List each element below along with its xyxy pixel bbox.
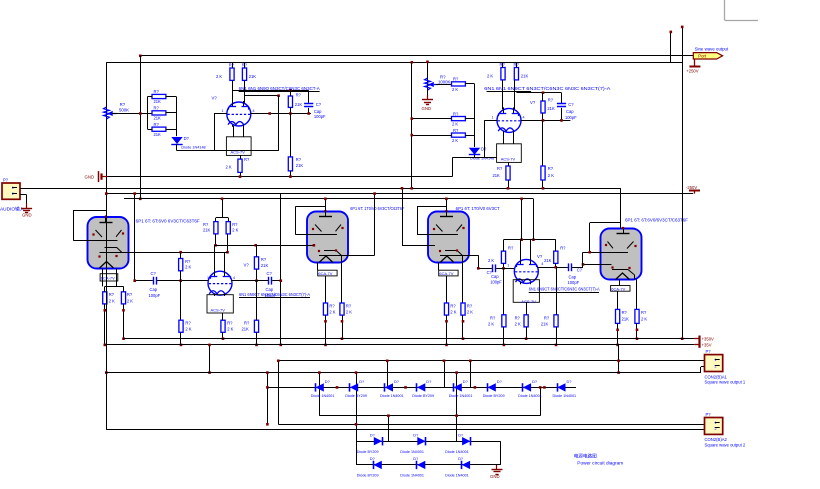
- svg-text:2 K: 2 K: [515, 321, 521, 326]
- wire L2 input drop: [134, 194, 136, 281]
- wire wiper right: [436, 84, 452, 86]
- ground GND bottom: [490, 465, 503, 479]
- wire cath res top: [240, 155, 242, 159]
- triode V? input-R: [497, 107, 521, 133]
- svg-text:R?: R?: [109, 292, 115, 297]
- wire pin1 drop: [214, 114, 216, 151]
- junction: [341, 337, 344, 340]
- resistor R? 2K R2 plate a: [488, 246, 514, 264]
- wire rplate top R: [516, 62, 518, 67]
- wire R2 e top: [526, 302, 528, 315]
- svg-text:CON2(B)A1: CON2(B)A1: [705, 374, 728, 379]
- svg-text:21K: 21K: [622, 316, 630, 321]
- svg-text:V?: V?: [530, 100, 536, 105]
- wire L2 d bottom: [180, 332, 182, 345]
- junction: [208, 344, 211, 347]
- wire T4 bracket left: [589, 223, 591, 252]
- junction: [255, 344, 258, 347]
- label annotation L2: [239, 292, 310, 297]
- diode D? row1-4: [412, 379, 434, 398]
- junction: [555, 344, 558, 347]
- resistor R? 2K T4b: [635, 309, 648, 323]
- svg-text:R?: R?: [296, 92, 302, 97]
- junction: [289, 175, 292, 178]
- svg-text:R?: R?: [154, 89, 160, 94]
- wire loop right down: [308, 90, 310, 103]
- wire plate res top R: [244, 62, 246, 68]
- diode D? 1N4148: [171, 136, 205, 150]
- wire T4b bottom: [636, 323, 638, 338]
- svg-text:Sine wave output: Sine wave output: [695, 46, 729, 51]
- svg-text:Diode 1N4001: Diode 1N4001: [380, 394, 404, 398]
- wire rrow3 right lead: [465, 135, 474, 137]
- label V? R2: [537, 254, 543, 259]
- pin box ACS-7V L2: [207, 295, 233, 314]
- resistor R? 21K fb-R: [541, 97, 555, 113]
- wire T2 out up: [374, 194, 376, 256]
- wire T2a bottom: [325, 315, 327, 345]
- wire L2 pin1: [157, 280, 209, 282]
- svg-text:2 K: 2 K: [127, 298, 133, 303]
- wire T2 out: [348, 255, 375, 257]
- wire T3 lead b: [462, 255, 464, 303]
- label R?: [440, 75, 446, 80]
- svg-text:D?: D?: [481, 147, 487, 152]
- wire mid bus 415: [319, 415, 540, 417]
- wire R2 top line: [504, 239, 556, 241]
- wire R2 plate b top: [555, 240, 557, 251]
- svg-text:D?: D?: [184, 136, 190, 141]
- wire rows tie right: [500, 441, 502, 465]
- wire T3a bottom: [446, 315, 448, 345]
- wire v456 drop: [456, 373, 458, 442]
- diode D? row1-5: [449, 379, 473, 398]
- svg-text:R?: R?: [244, 321, 250, 326]
- wire loop top: [232, 90, 309, 92]
- resistor R? 21K rplate R: [514, 62, 529, 80]
- svg-text:D?: D?: [359, 379, 365, 384]
- wire T4 cathode a: [612, 269, 628, 271]
- svg-text:CON2(B)A2: CON2(B)A2: [705, 437, 728, 442]
- svg-text:6CA-7V: 6CA-7V: [611, 286, 625, 291]
- pin box 6CA-7V T4: [611, 286, 630, 292]
- svg-text:+35V: +35V: [702, 342, 712, 347]
- junction: [179, 279, 182, 282]
- wire L2 e bottom: [222, 332, 224, 338]
- svg-text:2 K: 2 K: [452, 122, 458, 127]
- svg-text:21K: 21K: [521, 73, 529, 78]
- svg-text:C?: C?: [577, 268, 583, 273]
- wire stub right top: [670, 32, 672, 62]
- svg-text:100pF: 100pF: [568, 280, 580, 285]
- junction: [542, 91, 545, 94]
- label V?: [530, 100, 536, 105]
- wire T1b bottom: [123, 304, 125, 339]
- label 500K: [119, 108, 129, 113]
- svg-text:2 K: 2 K: [467, 310, 473, 315]
- wire connector pin2: [20, 194, 27, 196]
- wire rrows right tie: [474, 84, 476, 147]
- svg-text:Cap: Cap: [150, 287, 158, 292]
- wire underline L2: [239, 297, 310, 299]
- junction: [582, 263, 585, 266]
- svg-text:D?: D?: [325, 379, 331, 384]
- pin tip: [636, 329, 639, 332]
- junction: [401, 187, 404, 190]
- junction: [280, 344, 283, 347]
- wire rdiode to box: [452, 157, 496, 159]
- resistor R? 21K R2 plate b: [544, 246, 566, 264]
- svg-text:6N1 6N9CT 6N3CT/C6N3C 6N3CT(7): 6N1 6N9CT 6N3CT/C6N3C 6N3CT(7)-A: [529, 287, 600, 292]
- junction: [589, 251, 592, 254]
- svg-text:6N1 6N9CT 6N3CT/C6N3C 6N3CT(7): 6N1 6N9CT 6N3CT/C6N3C 6N3CT(7)-A: [239, 292, 310, 297]
- wire right tall vertical: [682, 27, 684, 339]
- junction: [280, 279, 283, 282]
- ground GND bus A: [85, 171, 108, 182]
- resistor R? 2K rrow1: [452, 77, 466, 92]
- svg-text:21K: 21K: [296, 163, 304, 168]
- svg-text:D?: D?: [458, 432, 464, 437]
- svg-text:R?: R?: [450, 303, 456, 308]
- pin box ACS-7V R2: [513, 280, 539, 305]
- wire L2 pin4: [232, 280, 269, 282]
- junction: [254, 244, 257, 247]
- svg-text:21K: 21K: [249, 74, 257, 79]
- wire underline R2: [529, 292, 599, 294]
- junction: [542, 187, 545, 190]
- wire T3 lead a: [438, 263, 440, 271]
- wire T4a bottom: [617, 323, 619, 345]
- wire T3 bracket left: [417, 206, 419, 234]
- svg-text:D?: D?: [370, 432, 376, 437]
- junction: [616, 344, 619, 347]
- wire row2 right lead: [166, 112, 176, 114]
- junction: [681, 337, 684, 340]
- wire L2 lead a: [214, 294, 216, 296]
- resistor R? 2K T1a: [103, 292, 115, 304]
- wire vertical feed left: [140, 56, 142, 199]
- svg-text:ACS-7V: ACS-7V: [231, 149, 246, 154]
- resistor R? 2K lower-R: [541, 166, 554, 180]
- resistor R? 2K L2 d: [179, 320, 192, 332]
- junction: [411, 117, 414, 120]
- resistor R? 2K R2 d: [488, 315, 506, 327]
- wire chain row1: [267, 387, 576, 389]
- wire right pot column: [427, 62, 429, 95]
- junction: [617, 360, 620, 363]
- svg-text:1: 1: [715, 358, 717, 362]
- junction: [226, 251, 229, 254]
- svg-text:R?: R?: [120, 102, 126, 107]
- svg-text:Diode BY209: Diode BY209: [412, 394, 434, 398]
- wire wiper left: [112, 113, 152, 115]
- junction: [560, 119, 563, 122]
- wire T3 riser: [446, 199, 448, 212]
- wire T4a to diode bus: [618, 345, 620, 373]
- junction: [336, 386, 339, 389]
- svg-text:Diode BY209: Diode BY209: [345, 394, 367, 398]
- wire T3b bottom: [462, 315, 464, 339]
- svg-text:R?: R?: [227, 321, 233, 326]
- wire out1 line: [278, 360, 704, 362]
- wire v319: [319, 373, 321, 416]
- svg-text:21K: 21K: [154, 99, 162, 104]
- svg-text:R?: R?: [490, 316, 496, 321]
- svg-text:GND: GND: [85, 175, 95, 180]
- no-connect: [670, 31, 673, 34]
- label pin4 L2: [233, 276, 235, 280]
- svg-text:500K: 500K: [119, 108, 129, 113]
- junction: [313, 244, 316, 247]
- wire v356: [356, 373, 358, 465]
- wire box1 pin2 jog v: [700, 367, 702, 373]
- ground GND right pot: [422, 95, 434, 111]
- wire T1 grid entry: [73, 240, 88, 242]
- triode V? R2: [514, 258, 538, 284]
- svg-text:R?: R?: [229, 62, 235, 67]
- junction: [411, 134, 414, 137]
- wire L2 f bottom: [256, 332, 258, 345]
- pin tip: [104, 309, 107, 312]
- junction: [543, 386, 546, 389]
- svg-text:V?: V?: [212, 96, 218, 101]
- resistor R? 21K L2 c: [254, 257, 268, 269]
- svg-text:V?: V?: [537, 254, 543, 259]
- wire L2 fb bottom: [180, 271, 182, 320]
- svg-text:-250V: -250V: [686, 185, 697, 190]
- svg-text:R?: R?: [203, 222, 209, 227]
- label sine wave output: [695, 46, 729, 51]
- svg-text:2: 2: [715, 427, 717, 431]
- label annotation T2: [350, 206, 404, 211]
- diode D? row1-7: [518, 379, 542, 398]
- junction: [404, 386, 407, 389]
- svg-text:1: 1: [715, 421, 717, 425]
- label pin1 L2: [207, 276, 209, 280]
- wire out1 drop: [278, 361, 280, 425]
- wire R2 pin4 b: [572, 267, 583, 269]
- label audio input: [0, 206, 25, 213]
- junction: [268, 112, 271, 115]
- wire r508 bottom: [508, 180, 510, 188]
- resistor R? 2K L2 e: [221, 320, 234, 332]
- svg-text:R?: R?: [346, 303, 352, 308]
- pin tip: [445, 320, 448, 323]
- svg-text:R?: R?: [154, 106, 160, 111]
- wire T3 grid entry: [417, 234, 428, 236]
- svg-text:2 K: 2 K: [452, 87, 458, 92]
- svg-text:4: 4: [253, 109, 255, 113]
- svg-text:Cap: Cap: [569, 275, 577, 280]
- wire T3 out: [469, 255, 478, 257]
- svg-text:电源电路图: 电源电路图: [574, 453, 597, 460]
- resistor R? 2K T3b: [461, 303, 473, 315]
- junction: [455, 414, 458, 417]
- wire top bus 2: [106, 62, 682, 64]
- capacitor C? 100pF R2-in: [487, 264, 503, 284]
- capacitor C? 100pF R2-out: [568, 263, 583, 285]
- svg-text:21K: 21K: [154, 132, 162, 137]
- label pin4 r: [523, 115, 525, 119]
- label annotation input-R: [484, 86, 610, 91]
- label pin4 R2: [541, 262, 543, 266]
- pin box 6CA-7V T3: [439, 270, 458, 276]
- diode D? row2-3: [445, 432, 470, 454]
- wire row3 right lead: [166, 129, 176, 131]
- junction: [525, 337, 528, 340]
- svg-text:GND: GND: [422, 106, 432, 111]
- wire L2 mid line: [216, 245, 314, 247]
- sheet border corner: [725, 0, 759, 21]
- svg-text:R?: R?: [185, 259, 191, 264]
- svg-text:1: 1: [12, 186, 14, 190]
- wire T1a top: [104, 286, 106, 291]
- potentiometer R? 500K: [104, 107, 117, 119]
- wire T1 lead b: [116, 269, 118, 287]
- wire T2 grid entry: [296, 234, 308, 236]
- svg-text:21K: 21K: [541, 321, 549, 326]
- resistor R? 2K rplate L: [487, 62, 505, 80]
- label annotation T4: [625, 218, 689, 223]
- wire T4 bracket top: [590, 222, 621, 224]
- resistor R? 21K lower-mid-R: [493, 166, 511, 180]
- svg-text:Diode 1N4001: Diode 1N4001: [311, 394, 335, 398]
- wire T2 riser: [325, 199, 327, 212]
- wire v388 drop: [388, 416, 390, 442]
- resistor R? 2K L2 fb: [179, 259, 192, 271]
- wire left pot column: [106, 62, 108, 223]
- svg-text:R?: R?: [548, 97, 554, 102]
- pentode V? T3: [428, 210, 470, 263]
- triode V? L2: [208, 270, 232, 296]
- pin tip: [462, 320, 465, 323]
- wire L2 plate b jog: [225, 252, 228, 254]
- svg-text:1: 1: [507, 264, 509, 268]
- svg-text:D?: D?: [370, 456, 376, 461]
- svg-text:1: 1: [222, 109, 224, 113]
- wire R2 out up: [582, 252, 584, 267]
- junction: [208, 371, 211, 374]
- wire L2 f top: [256, 281, 258, 321]
- junction: [503, 344, 506, 347]
- wire pin4 net down: [290, 114, 292, 157]
- svg-text:6CA-7V: 6CA-7V: [318, 271, 332, 276]
- svg-text:2: 2: [12, 192, 14, 196]
- wire L2 plate a jog: [214, 245, 215, 247]
- svg-text:6CA-7V: 6CA-7V: [101, 276, 115, 281]
- wire T1 bracket top: [73, 210, 106, 212]
- label annotation R2: [529, 287, 600, 292]
- junction: [387, 414, 390, 417]
- svg-text:100pF: 100pF: [565, 115, 577, 120]
- svg-text:21K: 21K: [242, 326, 250, 331]
- wire R2 f bottom: [556, 327, 558, 345]
- wire box2 pin1 line: [278, 424, 704, 426]
- ground GND connector: [21, 204, 32, 218]
- wire lower res bottom: [290, 171, 292, 177]
- svg-text:2 K: 2 K: [232, 228, 238, 233]
- wire T4 in2: [583, 264, 612, 266]
- wire L2 cap lead: [135, 280, 153, 282]
- wire v387: [387, 361, 389, 388]
- wire supply bus 1: [124, 338, 695, 340]
- diode D? row1-3: [380, 379, 404, 398]
- label pin1 R2: [507, 264, 509, 268]
- wire R2 riser b: [533, 199, 535, 240]
- wire T2a drop: [325, 276, 327, 303]
- junction: [133, 279, 136, 282]
- junction: [277, 94, 280, 97]
- svg-text:D?: D?: [426, 379, 432, 384]
- svg-text:2 K: 2 K: [185, 326, 191, 331]
- svg-text:6N1 6N1 6N9CT 6N3CT/C6N3C 6N3C: 6N1 6N1 6N9CT 6N3CT/C6N3C 6N3C 6N3CT(7)-…: [484, 86, 610, 91]
- svg-text:Diode BY209: Diode BY209: [483, 394, 505, 398]
- svg-text:C?: C?: [151, 271, 157, 276]
- svg-text:2 K: 2 K: [329, 310, 335, 315]
- junction: [214, 244, 217, 247]
- junction: [462, 337, 465, 340]
- wire row1 right lead: [166, 96, 176, 98]
- svg-text:2 K: 2 K: [488, 321, 494, 326]
- wire T4 lead a: [619, 280, 621, 286]
- wire bus A corner up: [452, 158, 454, 177]
- svg-text:21K: 21K: [261, 263, 269, 268]
- svg-text:2 K: 2 K: [641, 316, 647, 321]
- diode D? row1-1: [311, 379, 335, 398]
- svg-text:1: 1: [492, 115, 494, 119]
- svg-text:C?: C?: [316, 102, 322, 107]
- wire R2 riser a: [521, 199, 523, 240]
- svg-text:6P1 6T: 6T:6V0/6V3CT/C63T6F: 6P1 6T: 6T:6V0/6V3CT/C63T6F: [625, 218, 689, 223]
- label power circuit cn: [574, 453, 597, 460]
- wire branch down: [278, 96, 280, 151]
- junction: [520, 198, 523, 201]
- svg-text:Power circuit diagram: Power circuit diagram: [577, 460, 623, 465]
- pin box 6CA-7V T1: [100, 274, 118, 281]
- junction: [355, 423, 358, 426]
- wire rloop top: [516, 92, 561, 94]
- junction: [239, 175, 242, 178]
- svg-text:Diode 1N4001: Diode 1N4001: [445, 450, 469, 454]
- wire L2 plate a down2: [214, 245, 216, 271]
- junction: [355, 371, 358, 374]
- junction: [104, 344, 107, 347]
- junction: [105, 192, 108, 195]
- capacitor C? 100pF L2-out: [265, 271, 277, 298]
- svg-text:R?: R?: [622, 310, 628, 315]
- svg-text:R?: R?: [329, 303, 335, 308]
- svg-text:2 K: 2 K: [109, 298, 115, 303]
- svg-text:D?: D?: [567, 379, 573, 384]
- junction: [542, 119, 545, 122]
- pin box ACS-7V input-L: [226, 126, 251, 156]
- capacitor C? 100pF fb-R: [557, 102, 577, 120]
- wire box1 pin2 jog h: [701, 366, 705, 368]
- wire fb res bottom: [290, 107, 292, 113]
- svg-text:2 K: 2 K: [346, 310, 352, 315]
- junction: [455, 371, 458, 374]
- wire T1 lead a: [102, 269, 104, 287]
- junction: [122, 337, 125, 340]
- wire R2 plate a down: [503, 263, 505, 314]
- wire L2 fb top: [180, 252, 182, 258]
- svg-text:4: 4: [233, 276, 235, 280]
- wire rows right tie: [176, 97, 178, 137]
- wire L2 c top: [256, 245, 258, 256]
- junction: [179, 251, 182, 254]
- diode D? row3-3: [445, 456, 470, 478]
- wire L2 pin4 b: [272, 280, 281, 282]
